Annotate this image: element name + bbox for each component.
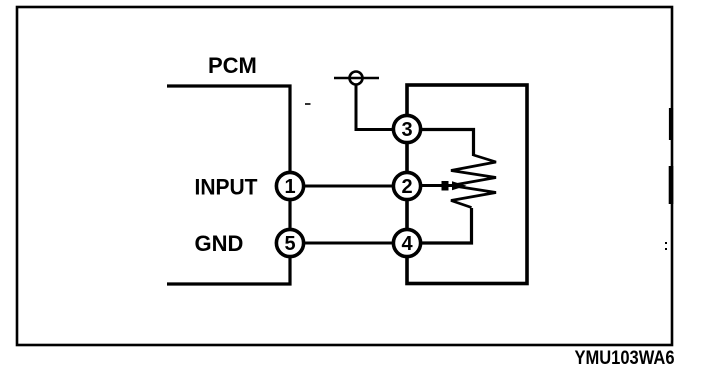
svg-text:1: 1	[284, 176, 295, 198]
svg-text:PCM: PCM	[208, 53, 257, 78]
svg-text:2: 2	[401, 176, 412, 198]
svg-text:YMU103WA6: YMU103WA6	[575, 347, 675, 369]
svg-text:INPUT: INPUT	[195, 175, 259, 200]
svg-text:GND: GND	[195, 231, 244, 256]
svg-text:4: 4	[401, 233, 413, 255]
svg-text:3: 3	[401, 119, 412, 141]
svg-text:5: 5	[284, 233, 295, 255]
